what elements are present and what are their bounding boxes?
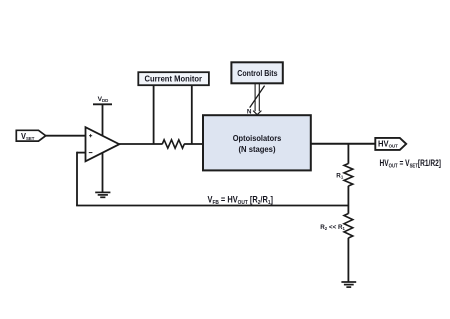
optoisolators block: [203, 115, 311, 170]
svg-text:R2 << R1: R2 << R1: [320, 224, 345, 231]
control bits box: [231, 62, 282, 83]
current monitor right sense wire: [191, 85, 193, 145]
label R2 << R1: [320, 224, 345, 231]
label VFB = HVOUT [R2/R1]: [208, 195, 274, 206]
VDD supply bar: [93, 103, 112, 105]
resistor R2: [344, 214, 353, 239]
resistor R1: [344, 164, 353, 187]
wire op-amp output to sense resistor: [118, 143, 163, 145]
feedback wire vertical left: [76, 152, 78, 206]
current monitor box: [138, 72, 209, 85]
wire sense resistor to optoisolators: [184, 143, 203, 145]
wire R2 to ground: [347, 238, 349, 282]
wire R1 to feedback junction: [347, 186, 349, 214]
wire op-amp - input stub: [77, 152, 86, 154]
svg-text:Optoisolators: Optoisolators: [233, 134, 282, 143]
VDD supply rail wire: [102, 104, 104, 192]
op-amp + marker: [89, 134, 92, 137]
wire output junction down to R1: [347, 144, 349, 164]
ground (output divider): [341, 282, 356, 287]
svg-text:(N stages): (N stages): [239, 145, 276, 154]
label VDD: [98, 96, 109, 103]
bus width slash: [250, 86, 265, 108]
op-amp - marker: [89, 152, 93, 154]
wire VSET to op-amp + input: [45, 135, 87, 137]
sense resistor: [162, 140, 184, 148]
ground (op-amp): [95, 192, 110, 197]
output tag HVOUT: [375, 138, 406, 150]
label HVOUT = VSET[R1/R2]: [380, 158, 442, 169]
feedback wire horizontal: [76, 205, 348, 207]
input tag VSET: [16, 130, 45, 142]
current monitor left sense wire: [153, 85, 155, 145]
output wire optoisolators to HVOUT tag: [311, 143, 376, 145]
svg-text:Current Monitor: Current Monitor: [145, 75, 203, 84]
control bus N (double line with open arrowhead): [253, 84, 261, 115]
svg-text:Control Bits: Control Bits: [237, 69, 278, 78]
op-amp: [86, 127, 120, 161]
label R1: [336, 173, 344, 180]
label N (bus width): [247, 108, 252, 115]
svg-text:R1: R1: [336, 173, 344, 180]
